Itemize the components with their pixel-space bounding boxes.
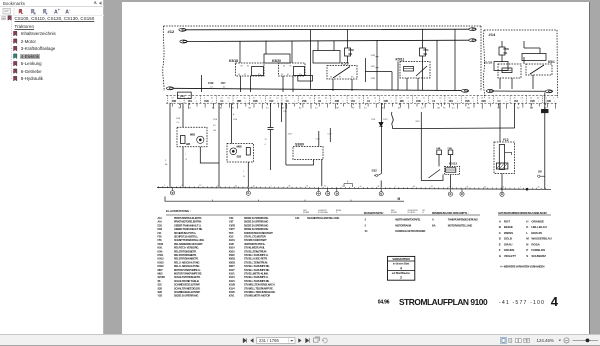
svg-text:1: 1 <box>277 101 278 103</box>
wire pad drop <box>281 103 283 122</box>
connector X left bus2 <box>180 40 187 43</box>
svg-text:BZ: BZ <box>517 108 520 110</box>
svg-text:SCHALT.RUND T.GELB.: SCHALT.RUND T.GELB. <box>174 279 200 283</box>
svg-text:1: 1 <box>457 101 458 103</box>
svg-text:124.46%: 124.46% <box>537 338 554 343</box>
ground bus main <box>157 188 551 190</box>
svg-text:15/B: 15/B <box>335 100 340 103</box>
svg-text:GEBER TANKANHALT LI.: GEBER TANKANHALT LI. <box>174 223 202 227</box>
wire K1/1 down1 <box>499 78 501 89</box>
svg-text:5A: 5A <box>424 52 429 56</box>
wire drop J in #14 <box>539 48 541 54</box>
svg-text:30: 30 <box>484 186 486 188</box>
connector X right bus3 <box>461 89 468 92</box>
svg-text:15/B: 15/B <box>383 100 388 103</box>
terminal cell C4 20 <box>493 96 495 104</box>
svg-text:C4: C4 <box>358 98 360 100</box>
coil frame above K5/1 <box>522 54 546 61</box>
svg-text:1: 1 <box>504 98 505 100</box>
svg-text:DIODE 3A SPERRUNG: DIODE 3A SPERRUNG <box>244 216 268 220</box>
svg-text:RELSTATIONSBETR.: RELSTATIONSBETR. <box>174 253 197 257</box>
svg-text:15: 15 <box>472 98 474 100</box>
wire K5/9 pin down left <box>332 79 334 91</box>
svg-text:X4/1: X4/1 <box>180 95 185 98</box>
ground terminal at 172.5 <box>172 188 174 191</box>
svg-text:LEITUNGSFARBENCODIERUNG KABELB: LEITUNGSFARBENCODIERUNG KABELBAUM <box>498 212 547 215</box>
svg-text:S8: S8 <box>538 170 542 174</box>
svg-text:X15/B: X15/B <box>229 284 236 287</box>
svg-text:31: 31 <box>377 186 379 188</box>
svg-text:SCHMIEGEGELB.TEMP.: SCHMIEGEGELB.TEMP. <box>174 290 200 294</box>
resistor in B2/2 <box>246 148 250 156</box>
svg-text:STV.MELLTE/KUENSLNACH: STV.MELLTE/KUENSLNACH <box>244 283 275 287</box>
connector X right #14 bus <box>545 90 552 93</box>
terminal cell 15/1 1 <box>183 96 185 104</box>
ground terminal at 318.5 <box>318 188 320 191</box>
svg-text:1: 1 <box>473 101 474 103</box>
connector housing box #14 <box>483 30 484 98</box>
svg-text:1: 1 <box>553 98 554 100</box>
svg-text:30: 30 <box>182 185 184 187</box>
svg-text:15: 15 <box>431 186 433 188</box>
wire left feed <box>169 103 171 187</box>
svg-text:G: G <box>499 254 502 258</box>
svg-text:1: 1 <box>489 101 490 103</box>
svg-text:MASSEPUNKTE :: MASSEPUNKTE : <box>364 211 385 215</box>
svg-text:15/1: 15/1 <box>188 100 193 103</box>
svg-text:Y3/7T: Y3/7T <box>229 228 236 231</box>
svg-text:GN: GN <box>467 108 471 110</box>
svg-text:45: 45 <box>223 86 226 88</box>
svg-text:C4: C4 <box>220 100 224 103</box>
svg-text:30/5: 30/5 <box>400 100 405 103</box>
svg-text:STV.MELL.TE/GRUMPF RE.: STV.MELL.TE/GRUMPF RE. <box>244 286 274 290</box>
connector box left of strip <box>178 92 192 99</box>
svg-text:DIODE 3A SPERRUNG: DIODE 3A SPERRUNG <box>244 223 268 227</box>
svg-text:S3D: S3D <box>158 287 163 290</box>
valve Y12 <box>499 103 501 142</box>
svg-text:RELSTATIONSBETR.: RELSTATIONSBETR. <box>174 249 197 253</box>
svg-text:BL: BL <box>212 108 215 110</box>
connector housing box #12 <box>163 26 164 91</box>
svg-text:K5/9: K5/9 <box>158 250 163 253</box>
wire net near tags <box>364 58 366 82</box>
svg-text:1: 1 <box>391 101 392 103</box>
wire C3B into S3/60 <box>318 131 320 147</box>
svg-text:X8/1T: X8/1T <box>229 265 236 268</box>
svg-text:BL: BL <box>165 164 168 166</box>
wire S8 long drop <box>544 93 546 190</box>
svg-text:15: 15 <box>265 139 268 141</box>
svg-text:30: 30 <box>235 185 237 187</box>
svg-text:A12: A12 <box>158 217 163 220</box>
connector X left bus3 <box>166 87 173 90</box>
svg-text:X1/B: X1/B <box>229 243 234 246</box>
svg-text:STV.ELL.T.GRUMPF LI.: STV.ELL.T.GRUMPF LI. <box>244 275 269 279</box>
terminal cell 30/5 14 <box>395 96 397 104</box>
svg-text:15/B: 15/B <box>530 100 535 103</box>
svg-text:GELB: GELB <box>504 237 513 241</box>
svg-text:C38: C38 <box>283 111 288 113</box>
svg-text:M: M <box>526 237 529 241</box>
svg-text:S3/60: S3/60 <box>295 143 304 147</box>
svg-text:F32: F32 <box>295 217 300 220</box>
M line ticks <box>213 200 352 202</box>
svg-text:RELAISWERKE NET.ABST: RELAISWERKE NET.ABST <box>174 242 203 246</box>
svg-text:DIODE 3A SPERRUNG: DIODE 3A SPERRUNG <box>174 294 198 298</box>
svg-text:BL: BL <box>398 108 401 110</box>
svg-text:C4: C4 <box>276 98 278 100</box>
svg-text:1: 1 <box>310 101 311 103</box>
svg-text:X10/1: X10/1 <box>229 273 236 276</box>
svg-text:2: 2 <box>342 186 343 188</box>
svg-text:31: 31 <box>423 98 425 100</box>
wire long horizontal <box>393 127 515 130</box>
svg-text:F: F <box>499 248 501 252</box>
wire drop I in #14 <box>523 57 525 64</box>
wire drop H <box>454 29 456 90</box>
svg-text:1: 1 <box>341 98 342 100</box>
svg-text:15/B: 15/B <box>416 100 421 103</box>
svg-text:C4B: C4B <box>436 147 441 150</box>
svg-text:GRAU: GRAU <box>504 242 512 246</box>
svg-text:C: C <box>499 231 502 235</box>
svg-text:TANKPUMPENSICHERUNG: TANKPUMPENSICHERUNG <box>448 217 478 221</box>
svg-text:15/2: 15/2 <box>269 100 274 103</box>
svg-text:BRAUN: BRAUN <box>531 231 541 235</box>
terminal cell C4 7 <box>281 96 283 104</box>
svg-text:1: 1 <box>440 101 441 103</box>
svg-text:F28: F28 <box>158 236 163 239</box>
svg-text:MAGNETROLLENSTELLUNG: MAGNETROLLENSTELLUNG <box>307 216 339 220</box>
svg-text:4: 4 <box>400 267 402 271</box>
svg-text:1: 1 <box>261 101 262 103</box>
svg-text:RT: RT <box>352 108 355 110</box>
wire S3/60 down to bus <box>321 160 323 187</box>
terminal cell 15/4 17 <box>444 96 446 104</box>
wire feed K5/20 <box>291 41 293 63</box>
svg-text:15/B: 15/B <box>237 100 242 103</box>
wire K5/18 pin30 down <box>240 76 242 92</box>
fringe stubs below strip <box>173 103 556 109</box>
svg-text:S2D: S2D <box>158 291 163 294</box>
relay K5/9 switch arm <box>333 67 350 79</box>
wire K5/1 down <box>532 75 534 89</box>
svg-text:X1/5: X1/5 <box>229 236 234 239</box>
svg-text:1: 1 <box>271 185 272 187</box>
resistor in B2/1 <box>181 136 186 144</box>
terminal cell 15/B 10 <box>330 96 332 104</box>
svg-text:MOTORABSTELLUNG: MOTORABSTELLUNG <box>448 223 473 227</box>
svg-text:GRUEN: GRUEN <box>504 248 514 252</box>
svg-text:4: 4 <box>551 294 559 309</box>
svg-text:16: 16 <box>243 176 245 178</box>
svg-text:86: 86 <box>283 66 285 68</box>
wire drop D <box>265 41 267 54</box>
coil frame left of K5/9 <box>313 51 340 64</box>
svg-text:0.5: 0.5 <box>315 108 319 110</box>
svg-text:FARBLOS: FARBLOS <box>531 248 545 252</box>
relay K5/11 switch arm <box>416 66 427 76</box>
relay K1/1 box <box>498 64 521 78</box>
svg-text:K5/13: K5/13 <box>449 162 457 166</box>
svg-text:1: 1 <box>245 101 246 103</box>
svg-text:PRINT MOTORELEKTRIK: PRINT MOTORELEKTRIK <box>174 220 202 224</box>
wire K1/1 down2 <box>511 78 513 89</box>
S32 contact symbol <box>375 174 377 176</box>
ground terminal at 327.7 <box>327 188 329 191</box>
svg-text:X1/44: X1/44 <box>229 239 236 242</box>
svg-text:Y12: Y12 <box>503 138 509 142</box>
svg-text:5: 5 <box>347 181 349 184</box>
svg-text:D: D <box>499 237 502 241</box>
svg-text:X5/20: X5/20 <box>229 254 236 257</box>
switch S32 <box>380 103 382 173</box>
svg-text:VIOLETT: VIOLETT <box>504 254 516 258</box>
contact frame K5/18 <box>252 67 264 76</box>
svg-text:SCHMIEGEGELB.TEMP.: SCHMIEGEGELB.TEMP. <box>174 283 200 287</box>
svg-text:15/B: 15/B <box>213 119 218 121</box>
svg-text:7: 7 <box>243 171 244 173</box>
svg-text:1: 1 <box>395 186 396 188</box>
svg-text:X8/1B: X8/1B <box>229 261 236 264</box>
svg-text:STV.MELL.TE/KUENSLNACH: STV.MELL.TE/KUENSLNACH <box>244 290 275 294</box>
svg-text:1: 1 <box>359 101 360 103</box>
svg-text:87: 87 <box>287 74 289 76</box>
svg-text:X10/4: X10/4 <box>229 280 236 283</box>
svg-text:M8/2: M8/2 <box>237 145 243 149</box>
svg-text:K5/9: K5/9 <box>341 62 349 66</box>
svg-text:15/4: 15/4 <box>371 119 376 121</box>
svg-text:15/9: 15/9 <box>371 66 376 68</box>
svg-text:3: 3 <box>365 218 367 221</box>
wire drop to B2/2 <box>231 103 233 143</box>
svg-text:2: 2 <box>195 98 196 100</box>
svg-text:.: . <box>297 221 298 224</box>
connector X right bus1 <box>469 28 476 31</box>
terminal cell 15/4 21 <box>509 96 511 104</box>
svg-text:31: 31 <box>217 185 219 187</box>
svg-text:WASSERBLAU: WASSERBLAU <box>531 237 551 241</box>
svg-text:E3/1: E3/1 <box>158 224 163 227</box>
svg-text:X2V1: X2V1 <box>229 295 235 298</box>
svg-text:0.5: 0.5 <box>421 108 425 110</box>
ground terminal at 336.8 <box>336 188 338 191</box>
svg-text:15/B: 15/B <box>465 100 470 103</box>
terminal cell 15/B 8 <box>297 96 299 104</box>
svg-text:STV.ELL.T.GRUMPF LI.: STV.ELL.T.GRUMPF LI. <box>244 253 269 257</box>
svg-text:1: 1 <box>538 101 539 103</box>
svg-text:K5/18: K5/18 <box>229 59 238 63</box>
svg-text:STV.ELL.T.GRUMPF RE.: STV.ELL.T.GRUMPF RE. <box>244 264 270 268</box>
svg-text:15/B: 15/B <box>302 100 307 103</box>
ground M line <box>165 197 404 202</box>
svg-text:15/B: 15/B <box>546 100 551 103</box>
svg-text:GN: GN <box>248 108 252 110</box>
svg-text:C4: C4 <box>432 100 436 103</box>
svg-text:DIODE 3A SPERRUNG: DIODE 3A SPERRUNG <box>244 227 268 231</box>
svg-text:15/4: 15/4 <box>288 134 293 136</box>
svg-text:4: 4 <box>455 98 456 100</box>
svg-text:P: P <box>526 248 528 252</box>
svg-text:K5/18: K5/18 <box>158 261 165 264</box>
svg-text:7: 7 <box>185 154 186 156</box>
coil frame mid <box>264 54 290 63</box>
svg-text:#14: #14 <box>489 32 496 37</box>
svg-text:SCHALT.STATION BETR.: SCHALT.STATION BETR. <box>174 275 201 279</box>
wire K5/13 drop1 <box>438 155 440 167</box>
svg-text:C4: C4 <box>286 100 290 103</box>
svg-text:1: 1 <box>343 101 344 103</box>
svg-text:C4: C4 <box>407 98 409 100</box>
svg-text:F58: F58 <box>158 239 163 242</box>
svg-text:C4: C4 <box>210 86 213 88</box>
svg-text:PRINT ZENTRALELEKTR.: PRINT ZENTRALELEKTR. <box>174 216 202 220</box>
svg-text:1: 1 <box>212 101 213 103</box>
svg-text:#12: #12 <box>168 29 175 34</box>
svg-text:15/B: 15/B <box>481 100 486 103</box>
svg-text:64/43: 64/43 <box>158 243 164 246</box>
svg-text:VERT.MOTR.POT.3+: VERT.MOTR.POT.3+ <box>244 242 266 246</box>
wire drop to B2/1 <box>182 103 184 127</box>
wire bus inside #14 <box>491 90 545 92</box>
svg-text:NR.BEZ: NR.BEZ <box>303 212 309 214</box>
wire coil squiggle <box>392 112 394 129</box>
svg-text:X5/14: X5/14 <box>229 247 236 250</box>
coil K1/1 <box>502 68 512 73</box>
svg-text:45: 45 <box>537 98 539 100</box>
svg-text:BL: BL <box>299 108 302 110</box>
svg-text:C4: C4 <box>188 108 191 110</box>
svg-text:A: A <box>233 113 235 116</box>
terminal cell C4 16 <box>428 96 430 104</box>
terminal cell 30/B 5 <box>248 96 250 104</box>
svg-text:C4: C4 <box>309 98 311 100</box>
svg-text:A16: A16 <box>158 221 163 224</box>
pdf page <box>122 2 590 334</box>
svg-text:S32: S32 <box>372 169 378 173</box>
svg-text:INSTRUMENTENTAFEL: INSTRUMENTENTAFEL <box>395 217 421 221</box>
wire K5/13 to bus <box>449 175 451 189</box>
svg-text:S8: S8 <box>158 280 162 283</box>
svg-text:K1/1/2: K1/1/2 <box>484 61 493 65</box>
terminal cell C4 12 <box>362 96 364 104</box>
svg-text:K5/11: K5/11 <box>396 58 405 62</box>
svg-text:31: 31 <box>211 98 213 100</box>
svg-text:15/B: 15/B <box>371 78 376 80</box>
svg-text:SICHPOT.15 ABSTELL.: SICHPOT.15 ABSTELL. <box>174 235 199 239</box>
svg-text:X10/7: X10/7 <box>229 269 236 272</box>
bracket 5 <box>344 184 353 188</box>
svg-text:GN: GN <box>213 130 217 132</box>
svg-text:15/B: 15/B <box>176 118 181 120</box>
svg-text:RELSTATIONANBETR.: RELSTATIONANBETR. <box>174 257 199 261</box>
svg-text:Y3/2: Y3/2 <box>158 295 163 298</box>
terminal cell 15/B 2 <box>199 96 201 104</box>
wire B2/1 down left <box>182 147 184 187</box>
svg-text:C3F: C3F <box>328 134 333 136</box>
svg-text:1: 1 <box>506 101 507 103</box>
coil K5/11 <box>404 67 414 72</box>
svg-text:BA: BA <box>432 224 436 227</box>
legend underline <box>166 214 480 216</box>
svg-text:15/B: 15/B <box>208 81 214 85</box>
svg-text:L: L <box>526 231 528 235</box>
svg-text:30: 30 <box>324 186 326 188</box>
svg-text:C4B: C4B <box>448 147 453 150</box>
terminal cell 15/B 22 <box>525 96 527 104</box>
wire bus 30 top <box>186 28 470 31</box>
contact frame K5/20 <box>294 67 305 76</box>
svg-text:H: H <box>526 219 528 223</box>
Y12 plunger bar <box>499 145 504 170</box>
svg-text:S32: S32 <box>158 284 163 287</box>
svg-text:M: M <box>398 197 401 201</box>
svg-text:2: 2 <box>400 276 402 280</box>
svg-text:Y3/7: Y3/7 <box>229 221 234 224</box>
svg-text:ORANGE: ORANGE <box>531 219 544 223</box>
wire K5/18 pin87 down <box>250 76 252 92</box>
terminal strip row <box>166 95 557 97</box>
svg-text:# = MEHRERE VARIANTEN VORHANDE: # = MEHRERE VARIANTEN VORHANDEN <box>500 266 544 269</box>
terminal cell 15/B 15 <box>411 96 413 104</box>
svg-text:30/B: 30/B <box>253 100 258 103</box>
svg-text:7: 7 <box>292 98 293 100</box>
svg-text:WS: WS <box>530 108 534 110</box>
svg-text:F21: F21 <box>158 232 163 235</box>
svg-text:BENENNUNG DER ABSCHNITTE :: BENENNUNG DER ABSCHNITTE : <box>432 212 469 215</box>
terminal cell 15/2 6 <box>265 96 267 104</box>
svg-text:STV.MELMETR.-MOTOR: STV.MELMETR.-MOTOR <box>244 294 270 298</box>
svg-text:C4: C4 <box>498 100 502 103</box>
fuse F29 <box>347 30 349 49</box>
svg-text:STV.ELL.T.GRUMPF RE.: STV.ELL.T.GRUMPF RE. <box>244 268 270 272</box>
svg-text:M6/7: M6/7 <box>158 269 164 272</box>
svg-text:0.5: 0.5 <box>177 122 181 124</box>
svg-text:15: 15 <box>185 159 187 161</box>
svg-text:STV.ELL.T.GRUMPF RE.: STV.ELL.T.GRUMPF RE. <box>244 279 270 283</box>
svg-text:KONTAKTER.FUNKSTART: KONTAKTER.FUNKSTART <box>244 231 273 235</box>
svg-text:31: 31 <box>538 187 540 189</box>
status bar <box>0 334 600 345</box>
ground terminal at 248.3 <box>247 188 249 191</box>
wire up right end <box>514 103 516 128</box>
wire drop A <box>201 75 203 92</box>
svg-text:TF/5: TF/5 <box>229 232 234 235</box>
svg-text:ROSA: ROSA <box>531 242 540 246</box>
S8 contact <box>538 175 540 177</box>
svg-text:15/7: 15/7 <box>221 81 227 85</box>
svg-text:5: 5 <box>165 160 167 162</box>
svg-text:1: 1 <box>522 101 523 103</box>
svg-text:92/1: 92/1 <box>186 142 191 146</box>
svg-text:K5/11: K5/11 <box>158 254 165 257</box>
svg-text:KONSOLE GETR.STECKER: KONSOLE GETR.STECKER <box>395 229 425 233</box>
terminal cell D4 9 <box>314 96 316 104</box>
svg-text:EL.AUSRÜSTUNG :: EL.AUSRÜSTUNG : <box>166 209 191 213</box>
svg-text:0.5: 0.5 <box>364 108 368 110</box>
wire drop F <box>397 62 399 91</box>
svg-text:K5/20: K5/20 <box>158 265 165 268</box>
svg-text:1: 1 <box>520 187 521 189</box>
svg-text:E3/2: E3/2 <box>158 228 163 231</box>
wire K5/13 drop2 <box>449 155 451 167</box>
svg-text:5A: 5A <box>504 51 509 55</box>
svg-text:30: 30 <box>413 186 415 188</box>
svg-text:STROMLAUFPLAN 9100: STROMLAUFPLAN 9100 <box>399 297 488 307</box>
svg-text:D4/1: D4/1 <box>383 119 388 121</box>
svg-text:1: 1 <box>375 101 376 103</box>
